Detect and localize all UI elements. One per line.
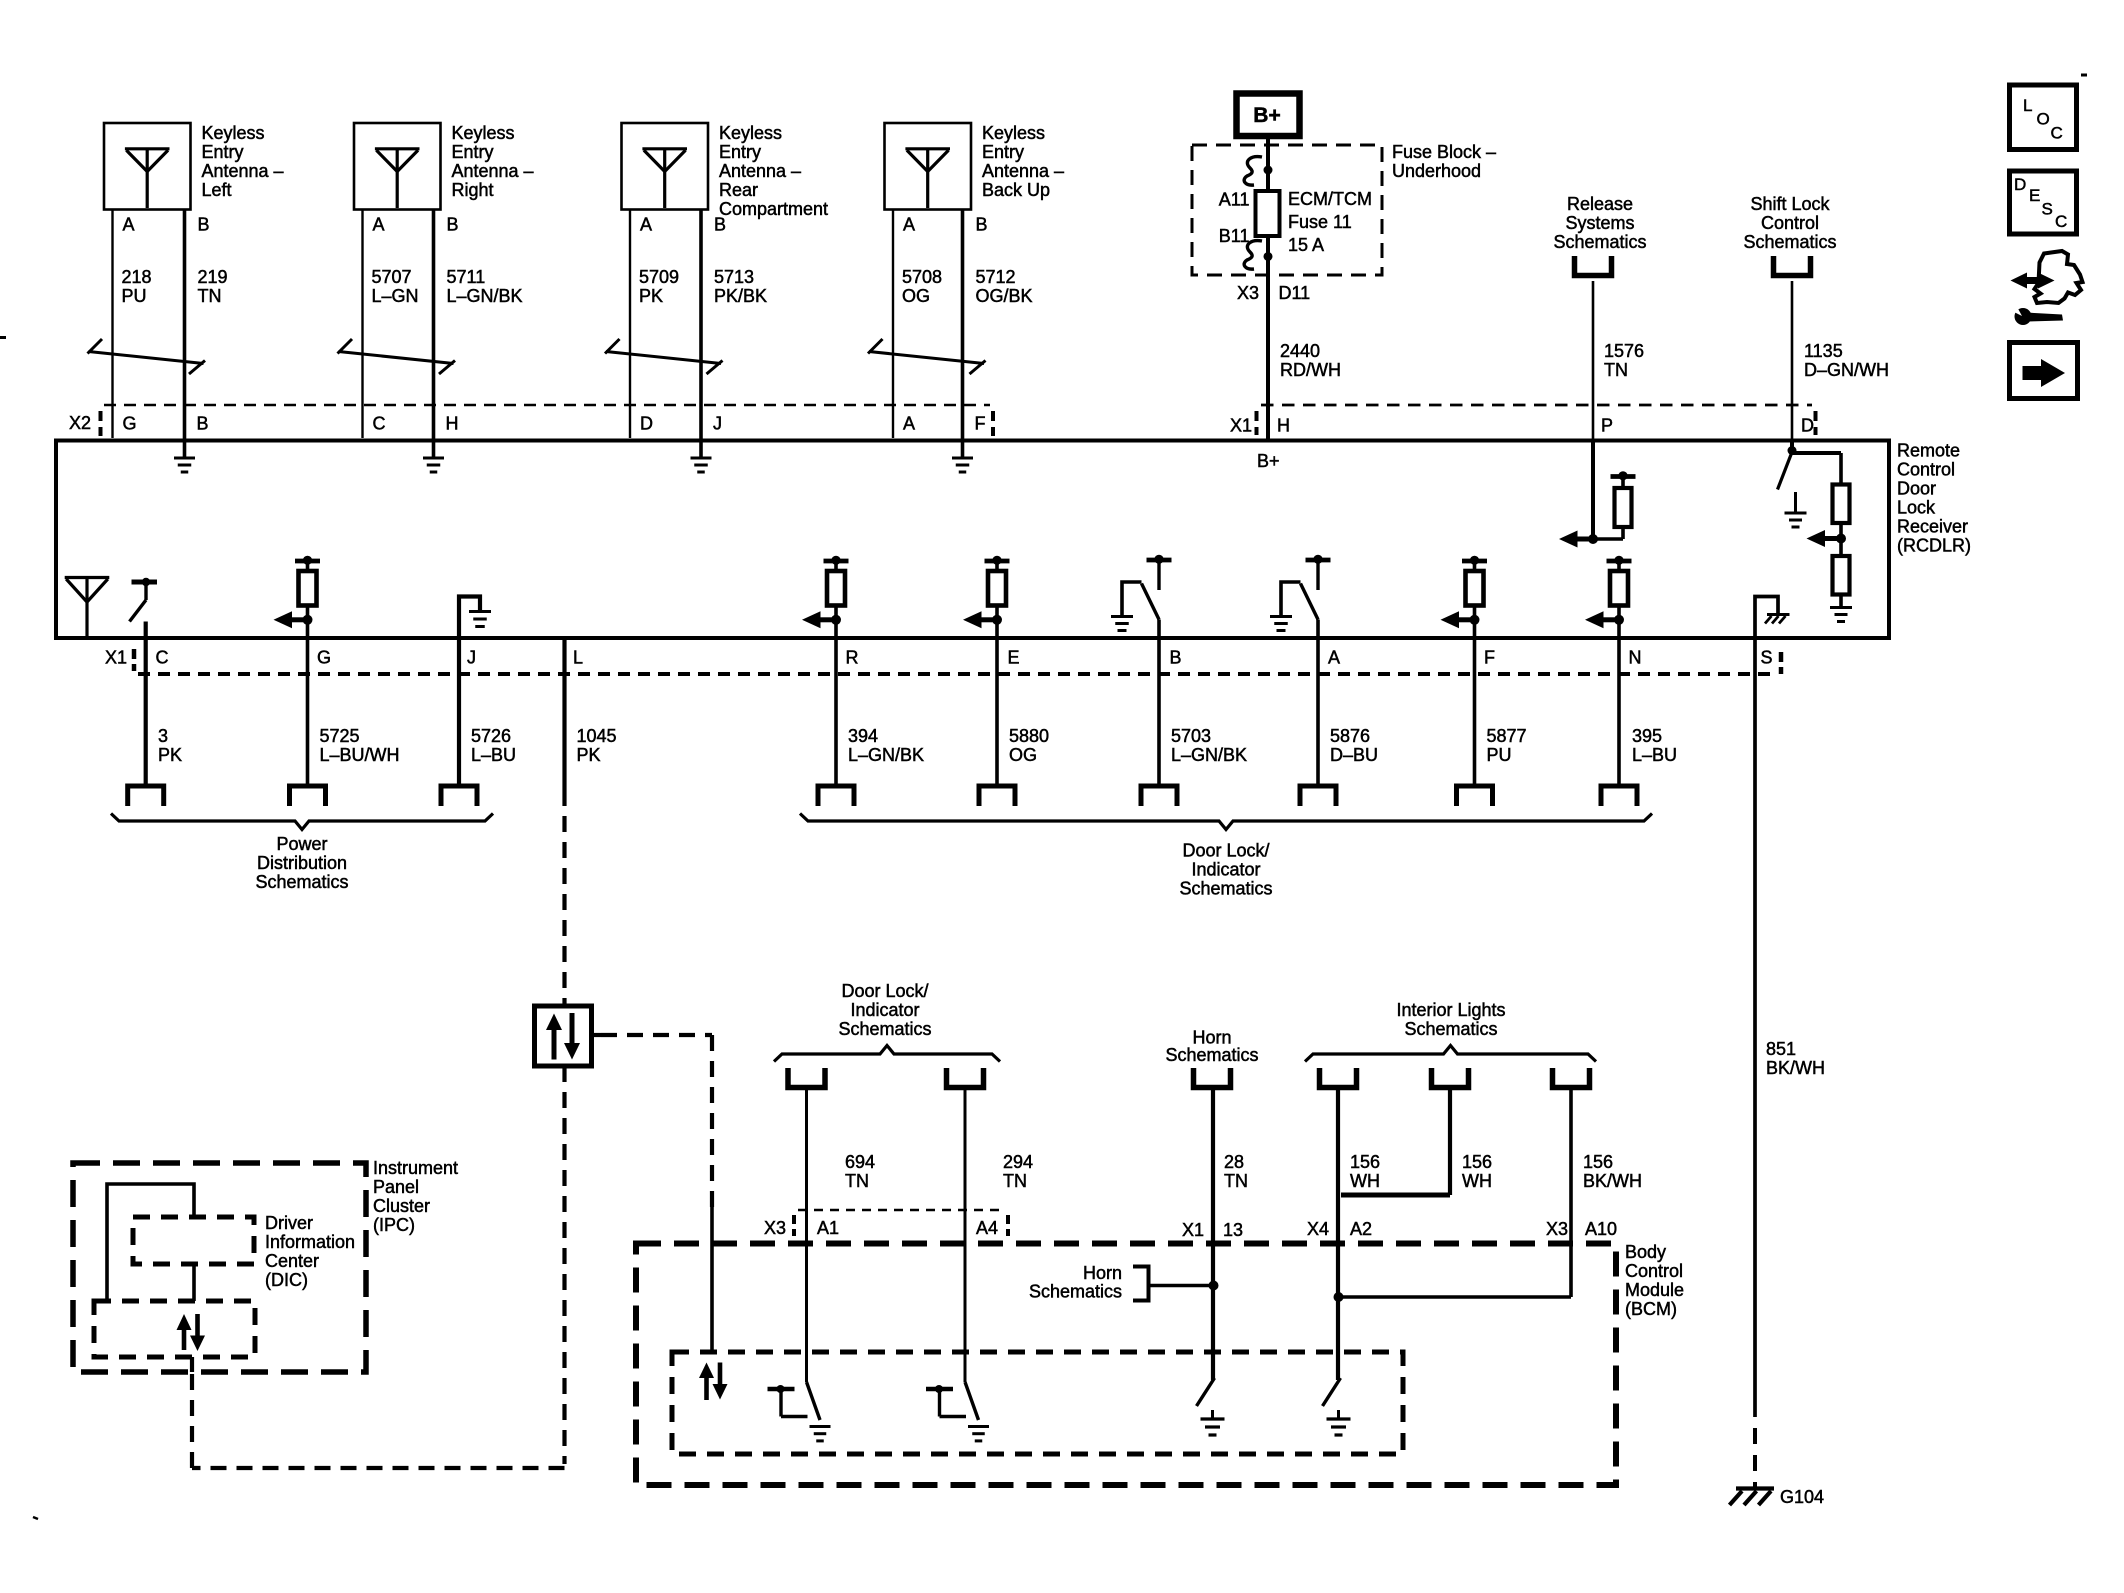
Driver Information Center dashed box bbox=[133, 1217, 254, 1264]
keyless entry antenna module 2 box bbox=[354, 123, 441, 210]
fuse clip lower bbox=[1244, 241, 1262, 270]
svg-text:5711: 5711 bbox=[447, 267, 486, 287]
off-page connector horn bbox=[1194, 1068, 1231, 1088]
stray dot bottom left bbox=[33, 1517, 38, 1519]
driver output at pin F bbox=[1462, 559, 1487, 564]
RF key input symbol inside RCDLR bbox=[132, 580, 158, 585]
svg-text:A: A bbox=[903, 414, 915, 434]
serial data dashed below IPC bbox=[190, 1357, 194, 1372]
wire B module 4 (ground side) bbox=[961, 210, 965, 443]
connector X1 bottom dashed boundary bbox=[138, 672, 1777, 676]
connector X2 boundary tick bbox=[99, 411, 103, 421]
connector X1 bottom tick bbox=[132, 649, 137, 659]
svg-text:Entry: Entry bbox=[202, 142, 244, 162]
svg-text:Keyless: Keyless bbox=[719, 123, 782, 143]
svg-text:Antenna –: Antenna – bbox=[982, 161, 1064, 181]
stray dot top right bbox=[2081, 74, 2087, 77]
svg-text:5707: 5707 bbox=[372, 267, 412, 287]
svg-text:OG: OG bbox=[1009, 745, 1037, 765]
svg-text:D–BU: D–BU bbox=[1330, 745, 1378, 765]
legend arrow bbox=[2023, 366, 2044, 380]
svg-text:Schematics: Schematics bbox=[1165, 1045, 1258, 1065]
svg-text:Underhood: Underhood bbox=[1392, 161, 1481, 181]
svg-text:N: N bbox=[1629, 648, 1642, 668]
chassis ground symbol at pin S bbox=[1767, 613, 1790, 616]
horn bracket wire to junction bbox=[1150, 1284, 1213, 1288]
svg-text:L–GN/BK: L–GN/BK bbox=[1171, 745, 1247, 765]
svg-text:Cluster: Cluster bbox=[373, 1196, 430, 1216]
brace power distribution bbox=[111, 814, 493, 830]
svg-text:PU: PU bbox=[1487, 745, 1512, 765]
svg-text:PK: PK bbox=[577, 745, 601, 765]
wire 28 TN bbox=[1211, 1088, 1215, 1381]
svg-text:A11: A11 bbox=[1219, 190, 1250, 210]
wire inside IPC bbox=[107, 1184, 194, 1301]
serial data route corner to IPC bbox=[192, 1466, 565, 1470]
svg-text:Schematics: Schematics bbox=[1404, 1019, 1497, 1039]
off-page connector (power distribution) at x=459 bbox=[441, 786, 477, 806]
svg-text:Entry: Entry bbox=[719, 142, 761, 162]
serial data arrows inside BCM bbox=[704, 1370, 709, 1400]
Instrument Panel Cluster dashed box bbox=[73, 1163, 366, 1372]
svg-text:Back Up: Back Up bbox=[982, 180, 1050, 200]
svg-text:Lock: Lock bbox=[1897, 498, 1936, 518]
svg-text:E: E bbox=[1008, 648, 1020, 668]
twisted pair symbol 2 bbox=[338, 339, 353, 354]
wire A2 down to switch bbox=[1336, 1297, 1340, 1380]
svg-text:B11: B11 bbox=[1219, 226, 1250, 246]
svg-text:A: A bbox=[903, 215, 915, 235]
off-page connector 294 wire bbox=[947, 1068, 984, 1088]
svg-text:J: J bbox=[713, 414, 722, 434]
svg-text:5703: 5703 bbox=[1171, 726, 1211, 746]
svg-text:Door Lock/: Door Lock/ bbox=[1182, 841, 1269, 861]
svg-text:PU: PU bbox=[122, 286, 147, 306]
wire A module 4 bbox=[892, 210, 894, 439]
svg-text:Driver: Driver bbox=[265, 1213, 313, 1233]
svg-text:Schematics: Schematics bbox=[1029, 1282, 1122, 1302]
svg-text:Remote: Remote bbox=[1897, 441, 1960, 461]
junction dot below fuse bbox=[1264, 252, 1273, 261]
svg-text:A1: A1 bbox=[817, 1218, 839, 1238]
svg-text:TN: TN bbox=[1003, 1171, 1027, 1191]
svg-text:A4: A4 bbox=[976, 1218, 998, 1238]
serial data wire dashed below box bbox=[562, 1066, 566, 1464]
svg-text:851: 851 bbox=[1766, 1039, 1796, 1059]
svg-text:156: 156 bbox=[1583, 1152, 1613, 1172]
fuse block underhood dashed box bbox=[1192, 145, 1382, 275]
serial data stub right of box bbox=[592, 1033, 602, 1037]
svg-text:L: L bbox=[2023, 96, 2032, 115]
svg-text:S: S bbox=[2042, 200, 2053, 219]
svg-text:L–GN: L–GN bbox=[372, 286, 419, 306]
connector X1 top tick bbox=[1255, 411, 1259, 421]
off-page connector (door lock) at x=1474.5 bbox=[1457, 786, 1493, 806]
svg-text:Power: Power bbox=[276, 834, 327, 854]
wire B+ to fuse to pin H (2440 RD/WH) bbox=[1266, 136, 1270, 440]
svg-text:13: 13 bbox=[1223, 1220, 1243, 1240]
legend icon wrench bbox=[2015, 308, 2032, 325]
off-page connector (door lock) at x=1318 bbox=[1300, 786, 1336, 806]
off-page connector Shift Lock bbox=[1774, 256, 1811, 276]
svg-text:Entry: Entry bbox=[452, 142, 494, 162]
off-page connector (power distribution) at x=307.5 bbox=[290, 786, 326, 806]
svg-text:C: C bbox=[2051, 124, 2063, 143]
serial data dashed down to BCM bbox=[710, 1035, 714, 1207]
svg-text:5725: 5725 bbox=[320, 726, 360, 746]
svg-text:R: R bbox=[846, 648, 859, 668]
svg-text:ECM/TCM: ECM/TCM bbox=[1288, 189, 1372, 209]
svg-text:Panel: Panel bbox=[373, 1177, 419, 1197]
wire A module 3 bbox=[629, 210, 631, 439]
interior lights switch inside BCM bbox=[1323, 1378, 1341, 1406]
serial data arrows inside IPC bbox=[182, 1322, 187, 1350]
off-page connector (power distribution) at x=145.7 bbox=[128, 786, 164, 806]
wire A module 2 bbox=[361, 210, 363, 439]
svg-text:Schematics: Schematics bbox=[1743, 232, 1836, 252]
svg-text:X2: X2 bbox=[69, 413, 91, 433]
driver output at pin G bbox=[295, 559, 320, 564]
svg-text:WH: WH bbox=[1462, 1171, 1492, 1191]
wire pin C (3 PK) bbox=[144, 622, 148, 787]
svg-text:TN: TN bbox=[845, 1171, 869, 1191]
svg-text:X1: X1 bbox=[1182, 1220, 1204, 1240]
svg-text:(DIC): (DIC) bbox=[265, 1270, 308, 1290]
svg-text:B+: B+ bbox=[1253, 104, 1280, 127]
svg-text:Schematics: Schematics bbox=[1179, 879, 1272, 899]
svg-text:Receiver: Receiver bbox=[1897, 517, 1968, 537]
antenna symbol inside RCDLR bbox=[65, 576, 110, 579]
svg-text:Schematics: Schematics bbox=[1553, 232, 1646, 252]
resistor divider at pin D inside RCDLR bbox=[1790, 451, 1841, 455]
fuse clip upper bbox=[1244, 157, 1262, 186]
svg-text:Fuse 11: Fuse 11 bbox=[1288, 212, 1352, 232]
svg-text:PK/BK: PK/BK bbox=[714, 286, 767, 306]
antenna symbol in module 3 bbox=[642, 147, 687, 150]
wire 851 dashed lower part bbox=[1753, 1428, 1757, 1444]
connector X3 tick right bbox=[1006, 1215, 1010, 1224]
svg-text:P: P bbox=[1601, 416, 1613, 436]
svg-text:G104: G104 bbox=[1780, 1487, 1824, 1507]
antenna symbol in module 4 bbox=[905, 147, 950, 150]
svg-text:Antenna –: Antenna – bbox=[719, 161, 801, 181]
horn schematics bracket bbox=[1133, 1267, 1149, 1301]
svg-text:B: B bbox=[714, 215, 726, 235]
svg-text:H: H bbox=[446, 414, 459, 434]
ground inside RCDLR at pin F bbox=[961, 442, 965, 458]
serial data down arrow bbox=[570, 1013, 575, 1043]
wire pin R (394 L-GN/BK) bbox=[834, 620, 838, 786]
svg-text:395: 395 bbox=[1632, 726, 1662, 746]
off-page connector 694 wire bbox=[788, 1068, 825, 1088]
serial data riser to IPC bbox=[190, 1372, 194, 1468]
svg-text:Information: Information bbox=[265, 1232, 355, 1252]
connector X3 tick left bbox=[792, 1215, 796, 1224]
svg-text:S: S bbox=[1761, 648, 1773, 668]
svg-text:D: D bbox=[2014, 175, 2026, 194]
svg-text:Interior Lights: Interior Lights bbox=[1396, 1000, 1505, 1020]
brace interior lights bbox=[1305, 1046, 1596, 1062]
svg-text:(BCM): (BCM) bbox=[1625, 1299, 1677, 1319]
off-page connector Release Systems bbox=[1575, 256, 1612, 276]
svg-text:5713: 5713 bbox=[714, 267, 754, 287]
wire pin A (5876 D-BU) bbox=[1316, 620, 1320, 787]
ground G104 chassis symbol bbox=[1736, 1486, 1774, 1490]
svg-text:Body: Body bbox=[1625, 1242, 1666, 1262]
svg-text:WH: WH bbox=[1350, 1171, 1380, 1191]
svg-text:Indicator: Indicator bbox=[1191, 860, 1260, 880]
junction dot above fuse bbox=[1264, 166, 1273, 175]
off-page connector (door lock) at x=836 bbox=[818, 786, 854, 806]
wire 851 BK/WH from pin S bbox=[1753, 640, 1757, 1417]
svg-text:PK: PK bbox=[639, 286, 663, 306]
wire 156 WH #1 bbox=[1336, 1088, 1340, 1298]
connector X2 right end tick bbox=[991, 411, 995, 421]
svg-text:L: L bbox=[573, 648, 583, 668]
svg-text:D: D bbox=[1801, 416, 1814, 436]
svg-text:D11: D11 bbox=[1279, 283, 1311, 303]
svg-text:1576: 1576 bbox=[1604, 341, 1644, 361]
svg-text:C: C bbox=[2055, 212, 2067, 231]
off-page connector 156 WH #1 bbox=[1320, 1068, 1357, 1088]
svg-text:5709: 5709 bbox=[639, 267, 679, 287]
stray mark left edge bbox=[0, 336, 6, 339]
driver output at pin N bbox=[1607, 559, 1632, 564]
svg-text:294: 294 bbox=[1003, 1152, 1033, 1172]
driver input at pin P inside RCDLR bbox=[1591, 440, 1595, 539]
svg-text:RD/WH: RD/WH bbox=[1280, 360, 1341, 380]
svg-text:Entry: Entry bbox=[982, 142, 1024, 162]
svg-text:Release: Release bbox=[1567, 194, 1633, 214]
serial data up arrow bbox=[552, 1029, 557, 1060]
svg-text:OG: OG bbox=[902, 286, 930, 306]
svg-text:O: O bbox=[2037, 110, 2050, 129]
svg-text:X3: X3 bbox=[1546, 1219, 1568, 1239]
svg-text:X4: X4 bbox=[1307, 1219, 1329, 1239]
wire pin F (5877 PU) bbox=[1473, 620, 1477, 786]
svg-text:B: B bbox=[1170, 648, 1182, 668]
wire pin G (5725 L-BU/WH) bbox=[306, 620, 310, 786]
svg-text:A2: A2 bbox=[1350, 1219, 1372, 1239]
switch at pin D inside RCDLR bbox=[1790, 440, 1794, 452]
wire 294 TN bbox=[964, 1088, 967, 1383]
svg-text:Control: Control bbox=[1897, 460, 1955, 480]
svg-text:L–BU: L–BU bbox=[471, 745, 516, 765]
svg-text:Door Lock/: Door Lock/ bbox=[841, 981, 928, 1001]
svg-text:Shift Lock: Shift Lock bbox=[1750, 194, 1830, 214]
svg-text:X3: X3 bbox=[764, 1218, 786, 1238]
internal ground hook at pin J bbox=[459, 597, 480, 641]
svg-text:5880: 5880 bbox=[1009, 726, 1049, 746]
svg-text:G: G bbox=[123, 414, 137, 434]
svg-text:B: B bbox=[976, 215, 988, 235]
svg-text:TN: TN bbox=[1224, 1171, 1248, 1191]
svg-text:C: C bbox=[373, 414, 386, 434]
svg-text:219: 219 bbox=[198, 267, 228, 287]
svg-text:D–GN/WH: D–GN/WH bbox=[1804, 360, 1889, 380]
svg-text:B+: B+ bbox=[1257, 451, 1280, 471]
svg-text:BK/WH: BK/WH bbox=[1583, 1171, 1642, 1191]
connector X2 dashed boundary line bbox=[104, 404, 990, 407]
wire A module 1 bbox=[111, 210, 113, 439]
svg-text:5877: 5877 bbox=[1487, 726, 1527, 746]
svg-text:28: 28 bbox=[1224, 1152, 1244, 1172]
switch to ground at pin A inside RCDLR bbox=[1306, 558, 1331, 563]
wire pin N (395 L-BU) bbox=[1617, 620, 1621, 786]
wire B module 2 (ground side) bbox=[432, 210, 436, 443]
svg-text:H: H bbox=[1277, 416, 1290, 436]
wire B module 1 (ground side) bbox=[183, 210, 187, 443]
connector X1 bottom right tick at S bbox=[1779, 652, 1784, 662]
svg-text:B: B bbox=[198, 215, 210, 235]
legend icon double arrow bbox=[2023, 277, 2042, 284]
door lock switch at A4 inside BCM bbox=[965, 1382, 979, 1420]
svg-text:218: 218 bbox=[122, 267, 152, 287]
svg-text:(IPC): (IPC) bbox=[373, 1215, 415, 1235]
wire B module 3 (ground side) bbox=[699, 210, 703, 443]
svg-text:A: A bbox=[1328, 648, 1340, 668]
LOC legend box bbox=[2010, 85, 2077, 150]
svg-text:OG/BK: OG/BK bbox=[976, 286, 1033, 306]
svg-text:J: J bbox=[467, 648, 476, 668]
wire 1576 TN bbox=[1592, 281, 1595, 440]
svg-text:Right: Right bbox=[452, 180, 494, 200]
svg-text:Schematics: Schematics bbox=[838, 1019, 931, 1039]
wire pin E (5880 OG) bbox=[995, 620, 999, 786]
brace door lock indicator top bbox=[774, 1046, 1000, 1062]
svg-text:5876: 5876 bbox=[1330, 726, 1370, 746]
svg-text:Indicator: Indicator bbox=[850, 1000, 919, 1020]
wire join A10 to A2 inside BCM bbox=[1339, 1295, 1572, 1299]
ground inside RCDLR at pin B bbox=[183, 442, 187, 458]
wire pin J (5726 L-BU) bbox=[457, 636, 461, 786]
svg-text:Keyless: Keyless bbox=[982, 123, 1045, 143]
svg-text:BK/WH: BK/WH bbox=[1766, 1058, 1825, 1078]
svg-text:Module: Module bbox=[1625, 1280, 1684, 1300]
off-page connector 156 BK/WH bbox=[1553, 1068, 1590, 1088]
svg-text:Distribution: Distribution bbox=[257, 853, 347, 873]
svg-text:Antenna –: Antenna – bbox=[202, 161, 284, 181]
door lock switch at A1 inside BCM bbox=[807, 1382, 821, 1420]
svg-text:A: A bbox=[640, 215, 652, 235]
svg-text:5712: 5712 bbox=[976, 267, 1016, 287]
legend arrow box bbox=[2010, 343, 2078, 399]
off-page connector 156 WH #2 bbox=[1432, 1068, 1469, 1088]
wire 156 WH #2 bbox=[1448, 1088, 1452, 1196]
svg-text:L–BU/WH: L–BU/WH bbox=[320, 745, 400, 765]
svg-text:Antenna –: Antenna – bbox=[452, 161, 534, 181]
svg-text:B: B bbox=[447, 215, 459, 235]
svg-text:A10: A10 bbox=[1585, 1219, 1617, 1239]
horn relay switch inside BCM bbox=[1197, 1378, 1215, 1406]
svg-text:Left: Left bbox=[202, 180, 232, 200]
svg-text:Fuse Block –: Fuse Block – bbox=[1392, 142, 1496, 162]
svg-text:Systems: Systems bbox=[1565, 213, 1634, 233]
svg-text:Keyless: Keyless bbox=[202, 123, 265, 143]
svg-text:F: F bbox=[975, 414, 986, 434]
svg-text:15 A: 15 A bbox=[1288, 235, 1324, 255]
svg-text:Schematics: Schematics bbox=[255, 872, 348, 892]
svg-text:394: 394 bbox=[848, 726, 878, 746]
twisted pair symbol 1 bbox=[88, 339, 103, 354]
connector X1 top dashed boundary bbox=[1261, 404, 1812, 407]
svg-text:C: C bbox=[156, 648, 169, 668]
svg-text:F: F bbox=[1484, 648, 1495, 668]
svg-text:Horn: Horn bbox=[1083, 1263, 1122, 1283]
keyless entry antenna module 4 box bbox=[885, 123, 972, 210]
svg-text:3: 3 bbox=[158, 726, 168, 746]
serial data dashed to BCM bbox=[601, 1033, 712, 1037]
keyless entry antenna module 1 box bbox=[104, 123, 191, 210]
off-page connector (door lock) at x=1159 bbox=[1141, 786, 1177, 806]
fuse ECM/TCM Fuse 11 15A body bbox=[1256, 191, 1280, 236]
svg-text:X1: X1 bbox=[1230, 416, 1252, 436]
driver output at pin E bbox=[985, 559, 1010, 564]
svg-text:Keyless: Keyless bbox=[452, 123, 515, 143]
svg-text:TN: TN bbox=[198, 286, 222, 306]
svg-text:Door: Door bbox=[1897, 479, 1936, 499]
BCM inner function dashed box bbox=[672, 1352, 1403, 1454]
serial data wire 1045 dashed upper bbox=[562, 790, 566, 1006]
wire 694 TN bbox=[805, 1088, 808, 1383]
svg-text:PK: PK bbox=[158, 745, 182, 765]
connector X3 dashed row bbox=[798, 1209, 1004, 1212]
legend icon part outline bbox=[2035, 251, 2083, 303]
svg-text:Instrument: Instrument bbox=[373, 1158, 458, 1178]
svg-text:L–BU: L–BU bbox=[1632, 745, 1677, 765]
svg-text:156: 156 bbox=[1350, 1152, 1380, 1172]
antenna symbol in module 1 bbox=[125, 147, 170, 150]
svg-text:694: 694 bbox=[845, 1152, 875, 1172]
antenna symbol in module 2 bbox=[375, 147, 420, 150]
svg-text:G: G bbox=[317, 648, 331, 668]
svg-text:A: A bbox=[123, 215, 135, 235]
svg-text:A: A bbox=[373, 215, 385, 235]
serial data symbol box bbox=[535, 1006, 592, 1066]
switch to ground at pin B inside RCDLR bbox=[1147, 558, 1172, 563]
svg-text:Control: Control bbox=[1761, 213, 1819, 233]
junction dot on 28 TN wire bbox=[1209, 1281, 1219, 1291]
twisted pair symbol 3 bbox=[605, 339, 620, 354]
driver output at pin R bbox=[824, 559, 849, 564]
wire pin L (1045 PK) solid part bbox=[562, 637, 566, 791]
svg-text:X1: X1 bbox=[105, 648, 127, 668]
serial data solid into BCM bbox=[710, 1207, 714, 1352]
svg-text:1045: 1045 bbox=[577, 726, 617, 746]
svg-text:Center: Center bbox=[265, 1251, 319, 1271]
ground inside RCDLR at pin J bbox=[699, 442, 703, 458]
wire pin B (5703 L-GN/BK) bbox=[1157, 620, 1161, 787]
svg-text:156: 156 bbox=[1462, 1152, 1492, 1172]
svg-text:D: D bbox=[640, 414, 653, 434]
twisted pair symbol 4 bbox=[868, 339, 883, 354]
svg-text:5708: 5708 bbox=[902, 267, 942, 287]
Body Control Module dashed box bbox=[636, 1244, 1616, 1486]
RCDLR module box outline bbox=[56, 441, 1889, 639]
svg-text:L–GN/BK: L–GN/BK bbox=[447, 286, 523, 306]
keyless entry antenna module 3 box bbox=[622, 123, 709, 210]
wire 156 WH #2 horizontal join bbox=[1341, 1193, 1450, 1198]
svg-text:B: B bbox=[197, 414, 209, 434]
svg-text:Control: Control bbox=[1625, 1261, 1683, 1281]
svg-text:(RCDLR): (RCDLR) bbox=[1897, 536, 1971, 556]
svg-text:X3: X3 bbox=[1237, 283, 1259, 303]
svg-text:L–GN/BK: L–GN/BK bbox=[848, 745, 924, 765]
junction dot interior lights inside BCM bbox=[1334, 1292, 1344, 1302]
serial data box inside IPC dashed bbox=[94, 1301, 255, 1357]
svg-text:E: E bbox=[2029, 186, 2040, 205]
svg-text:Rear: Rear bbox=[719, 180, 758, 200]
